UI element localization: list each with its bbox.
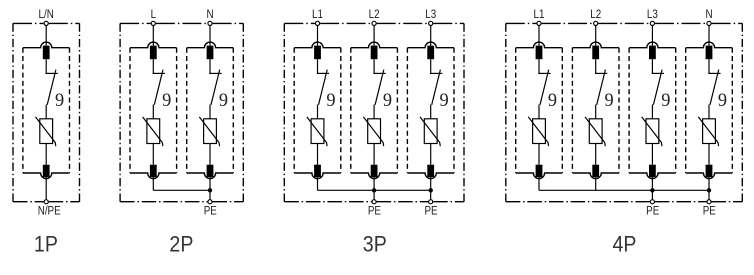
svg-text:9: 9: [440, 90, 449, 112]
connection block (top) 2P.2: [207, 46, 214, 60]
thermal disconnector switch 4P.2: [595, 70, 607, 105]
wire junction to PE terminal 4P: [708, 190, 710, 201]
wire block to disconnector 4P.3: [651, 59, 653, 73]
connection block (top) 4P.1: [536, 46, 543, 60]
wire varistor to bottom block 4P.3: [651, 144, 653, 165]
svg-text:9: 9: [55, 90, 64, 112]
connection block (bottom) 4P.1: [536, 165, 543, 177]
wire bottom block down 4P.1: [538, 177, 540, 190]
thermal disconnector switch 2P.1: [153, 70, 165, 105]
wire disconnector to varistor 2P.2: [209, 105, 211, 119]
varistor MOV 1P: [36, 117, 56, 146]
wire 3P.1 terminal to top connection block: [317, 23, 319, 45]
varistor MOV 4P.4: [698, 117, 718, 146]
wire varistor to bottom block 1P: [45, 144, 47, 165]
svg-text:N: N: [705, 8, 712, 21]
module box 3P.2 (dashed): [351, 42, 398, 179]
wire bottom block down 3P.2: [373, 177, 375, 190]
module box 4P.4 (dashed): [686, 42, 733, 178]
thermal symbol (theta) 2P.2: [219, 90, 228, 112]
wire bottom block down 1P: [45, 177, 47, 202]
connection block (bottom) 3P.3: [427, 165, 434, 177]
thermal disconnector switch 2P.2: [209, 70, 221, 105]
module box 2P.1 (dashed): [130, 42, 177, 179]
wire varistor to bottom block 4P.2: [595, 144, 597, 165]
wire bottom block down 4P.3: [651, 177, 653, 190]
wire 1P terminal to top connection block: [45, 23, 47, 45]
wire disconnector to varistor 3P.1: [317, 105, 319, 119]
svg-text:PE: PE: [424, 204, 437, 217]
junction 3P PE node: [429, 188, 433, 192]
svg-text:9: 9: [162, 90, 171, 112]
caption 1P: [34, 233, 58, 257]
label PE: [424, 204, 437, 217]
SPD enclosure 1P (dash-dot box): [13, 23, 80, 201]
connection block (bottom) 3P.1: [314, 165, 321, 177]
svg-text:L/N: L/N: [39, 8, 54, 21]
varistor MOV 3P.1: [307, 117, 327, 146]
svg-text:PE: PE: [646, 204, 659, 217]
varistor MOV 2P.1: [143, 117, 163, 146]
label L2: [590, 8, 601, 21]
svg-text:2P: 2P: [169, 233, 193, 257]
connection block (top) 4P.4: [706, 46, 713, 60]
module box 4P.1 (dashed): [516, 42, 563, 178]
SPD enclosure 4P (dash-dot box): [506, 23, 743, 201]
wire disconnector to varistor 2P.1: [152, 105, 154, 119]
module box 2P.2 (dashed): [187, 42, 234, 179]
thermal disconnector switch 4P.4: [708, 70, 720, 105]
terminal L: [151, 21, 155, 25]
junction 2P PE node: [208, 188, 212, 192]
varistor MOV 4P.2: [585, 117, 605, 146]
wire bottom block down 3P.1: [317, 177, 319, 190]
wire disconnector to varistor 1P: [45, 105, 47, 119]
varistor MOV 4P.3: [642, 117, 662, 146]
caption 3P: [363, 233, 387, 257]
SPD enclosure 3P (dash-dot box): [284, 23, 464, 201]
connection block (top) 3P.3: [427, 46, 434, 60]
wire block to disconnector 3P.1: [317, 59, 319, 73]
wire disconnector to varistor 4P.1: [538, 105, 540, 119]
svg-text:N: N: [206, 8, 213, 21]
junction 3P PE node: [372, 188, 376, 192]
terminal L/N: [44, 21, 48, 25]
wire PE bus 2P: [153, 189, 210, 191]
connection block (bottom) 4P.4: [706, 165, 713, 177]
wire block to disconnector 4P.1: [538, 59, 540, 73]
wire varistor to bottom block 4P.4: [708, 144, 710, 165]
svg-text:3P: 3P: [363, 233, 387, 257]
connection block (bottom) 4P.2: [592, 165, 599, 177]
wire block to disconnector 2P.2: [209, 59, 211, 73]
thermal symbol (theta) 4P.3: [661, 90, 670, 112]
connection block (bottom) 2P.2: [207, 165, 214, 177]
svg-text:N/PE: N/PE: [38, 204, 61, 217]
terminal L2: [372, 21, 376, 25]
wire varistor to bottom block 3P.2: [373, 144, 375, 165]
terminal L1: [315, 21, 319, 25]
terminal N: [208, 21, 212, 25]
connection block (top) 3P.1: [314, 46, 321, 60]
label PE: [204, 204, 217, 217]
svg-text:1P: 1P: [34, 233, 58, 257]
wire bottom block down 4P.4: [708, 177, 710, 190]
wire junction to PE terminal 3P: [430, 190, 432, 201]
label L3: [425, 8, 436, 21]
module box 4P.2 (dashed): [572, 42, 619, 179]
connection block (bottom) 4P.3: [649, 165, 656, 177]
junction 4P PE node: [650, 188, 654, 192]
terminal PE: [372, 200, 376, 204]
thermal symbol (theta) 3P.1: [326, 90, 335, 112]
thermal symbol (theta) 4P.4: [718, 90, 727, 112]
thermal disconnector switch 4P.1: [538, 70, 550, 105]
svg-text:L3: L3: [647, 8, 658, 21]
wire disconnector to varistor 4P.3: [651, 105, 653, 119]
terminal N/PE: [44, 200, 48, 204]
terminal L3: [429, 21, 433, 25]
svg-text:L1: L1: [534, 8, 545, 21]
wire block to disconnector 1P: [45, 59, 47, 73]
wire 4P.1 terminal to top connection block: [538, 23, 540, 45]
wire varistor to bottom block 2P.1: [152, 144, 154, 165]
svg-text:L: L: [151, 8, 156, 21]
wire 2P.1 terminal to top connection block: [152, 23, 154, 45]
terminal L3: [650, 21, 654, 25]
label N: [705, 8, 712, 21]
label N/PE: [38, 204, 61, 217]
wire junction to PE terminal 2P: [209, 190, 211, 201]
label L1: [312, 8, 323, 21]
thermal disconnector switch 3P.1: [317, 70, 329, 105]
thermal symbol (theta) 3P.3: [440, 90, 449, 112]
thermal symbol (theta) 1P: [55, 90, 64, 112]
connection block (top) 3P.2: [371, 46, 378, 60]
varistor MOV 4P.1: [528, 117, 548, 146]
svg-text:L2: L2: [369, 8, 380, 21]
wire junction to PE terminal 4P: [651, 190, 653, 201]
connection block (bottom) 2P.1: [150, 165, 157, 177]
wire block to disconnector 2P.1: [152, 59, 154, 73]
thermal symbol (theta) 2P.1: [162, 90, 171, 112]
wire block to disconnector 3P.2: [373, 59, 375, 73]
label L2: [369, 8, 380, 21]
wire disconnector to varistor 4P.2: [595, 105, 597, 119]
wire varistor to bottom block 3P.1: [317, 144, 319, 165]
module box 3P.1 (dashed): [294, 42, 341, 179]
svg-text:PE: PE: [703, 204, 716, 217]
terminal N: [707, 21, 711, 25]
SPD enclosure 2P (dash-dot box): [120, 23, 243, 201]
label PE: [646, 204, 659, 217]
svg-text:9: 9: [219, 90, 228, 112]
thermal disconnector switch 3P.3: [430, 70, 442, 105]
module box 1P (dashed): [23, 42, 70, 178]
svg-text:9: 9: [605, 90, 614, 112]
connection block (bottom) 1P: [43, 165, 50, 177]
wire 4P.2 terminal to top connection block: [595, 23, 597, 45]
svg-text:L2: L2: [590, 8, 601, 21]
thermal disconnector switch 1P: [46, 70, 58, 105]
connection block (bottom) 3P.2: [371, 165, 378, 177]
thermal disconnector switch 4P.3: [652, 70, 664, 105]
caption 4P: [613, 233, 637, 257]
terminal PE: [208, 200, 212, 204]
svg-text:L1: L1: [312, 8, 323, 21]
terminal L1: [537, 21, 541, 25]
wire bottom block down 4P.2: [595, 177, 597, 190]
wire PE bus 4P: [539, 189, 709, 191]
svg-text:9: 9: [661, 90, 670, 112]
svg-text:9: 9: [548, 90, 557, 112]
wire 3P.3 terminal to top connection block: [430, 23, 432, 45]
wire block to disconnector 4P.4: [708, 59, 710, 73]
thermal disconnector switch 3P.2: [373, 70, 385, 105]
svg-text:9: 9: [718, 90, 727, 112]
wire 2P.2 terminal to top connection block: [209, 23, 211, 45]
wire bottom block down 3P.3: [430, 177, 432, 190]
svg-text:9: 9: [326, 90, 335, 112]
wire varistor to bottom block 4P.1: [538, 144, 540, 165]
wire 4P.4 terminal to top connection block: [708, 23, 710, 45]
thermal symbol (theta) 3P.2: [383, 90, 392, 112]
connection block (top) 2P.1: [150, 46, 157, 60]
varistor MOV 3P.3: [420, 117, 440, 146]
wire bottom block down 2P.1: [152, 177, 154, 190]
label L3: [647, 8, 658, 21]
varistor MOV 2P.2: [199, 117, 219, 146]
junction 4P PE node: [707, 188, 711, 192]
svg-text:9: 9: [383, 90, 392, 112]
svg-text:PE: PE: [368, 204, 381, 217]
label L: [151, 8, 156, 21]
thermal symbol (theta) 4P.2: [605, 90, 614, 112]
thermal symbol (theta) 4P.1: [548, 90, 557, 112]
wire block to disconnector 3P.3: [430, 59, 432, 73]
connection block (top) 4P.3: [649, 46, 656, 60]
label N: [206, 8, 213, 21]
module box 3P.3 (dashed): [407, 42, 454, 178]
terminal L2: [594, 21, 598, 25]
label PE: [368, 204, 381, 217]
wire PE bus 3P: [318, 189, 431, 191]
wire varistor to bottom block 3P.3: [430, 144, 432, 165]
module box 4P.3 (dashed): [629, 42, 676, 179]
label PE: [703, 204, 716, 217]
svg-text:L3: L3: [425, 8, 436, 21]
wire disconnector to varistor 3P.2: [373, 105, 375, 119]
label L/N: [39, 8, 54, 21]
wire 3P.2 terminal to top connection block: [373, 23, 375, 45]
varistor MOV 3P.2: [363, 117, 383, 146]
connection block (top) 4P.2: [592, 46, 599, 60]
wire bottom block down 2P.2: [209, 177, 211, 190]
terminal PE: [707, 200, 711, 204]
terminal PE: [650, 200, 654, 204]
caption 2P: [169, 233, 193, 257]
connection block (top) 1P: [43, 46, 50, 60]
wire 4P.3 terminal to top connection block: [651, 23, 653, 45]
wire disconnector to varistor 3P.3: [430, 105, 432, 119]
terminal PE: [429, 200, 433, 204]
svg-text:4P: 4P: [613, 233, 637, 257]
wire varistor to bottom block 2P.2: [209, 144, 211, 165]
svg-text:PE: PE: [204, 204, 217, 217]
wire disconnector to varistor 4P.4: [708, 105, 710, 119]
wire junction to PE terminal 3P: [373, 190, 375, 201]
label L1: [534, 8, 545, 21]
wire block to disconnector 4P.2: [595, 59, 597, 73]
